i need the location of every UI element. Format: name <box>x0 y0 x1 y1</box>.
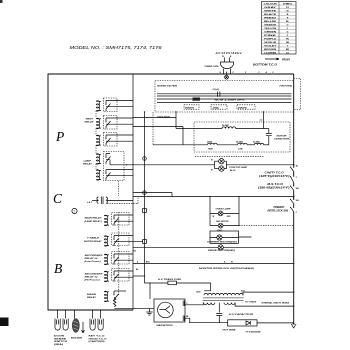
vent motor winding hi <box>176 128 222 130</box>
svg-text:BLUE: BLUE <box>264 21 277 23</box>
svg-text:FRONT: FRONT <box>282 59 291 61</box>
svg-text:BLK: BLK <box>197 291 202 293</box>
functional earth dashed loop <box>294 79 301 110</box>
svg-text:WHITE: WHITE <box>264 10 277 12</box>
drive motor <box>133 246 294 248</box>
dashed link lamp relay to LAT <box>118 181 120 196</box>
svg-text:W: W <box>211 159 213 161</box>
svg-text:(LAMP RELAY): (LAMP RELAY) <box>85 221 102 223</box>
connector square D <box>143 191 147 195</box>
svg-text:PRIMARY: PRIMARY <box>274 207 285 209</box>
fan motor dashed enclosure <box>194 122 290 152</box>
outer enclosure border top+left <box>48 74 294 310</box>
relay 5 <box>96 170 110 181</box>
svg-text:SECONDARY: SECONDARY <box>85 273 104 275</box>
ZNR boxes row <box>184 105 255 109</box>
noise filter line N <box>157 93 292 95</box>
svg-text:INTERNAL GND IN TRANS: INTERNAL GND IN TRANS <box>262 303 290 305</box>
relay 3 <box>96 135 110 146</box>
vent motor winding row 2 <box>153 144 208 146</box>
svg-text:ZNR(270): ZNR(270) <box>184 107 194 109</box>
F labels on top border <box>220 72 275 74</box>
svg-text:B: B <box>54 261 62 276</box>
hv bottom wire <box>190 321 228 323</box>
svg-text:M.S.T.C.O: M.S.T.C.O <box>267 184 283 186</box>
svg-text:28.2(Ω): 28.2(Ω) <box>235 141 243 143</box>
svg-text:HOOD T.C.O: HOOD T.C.O <box>89 338 108 340</box>
svg-text:MOTOR RELAY: MOTOR RELAY <box>84 241 102 243</box>
right bus wire <box>293 74 295 167</box>
svg-text:C: C <box>53 191 63 206</box>
svg-text:VIOLET: VIOLET <box>264 45 277 47</box>
svg-text:MAIN RELAY: MAIN RELAY <box>85 218 103 220</box>
connector square F <box>143 240 147 244</box>
svg-text:L.A.T: L.A.T <box>87 202 93 204</box>
svg-text:(CAUTION): (CAUTION) <box>89 340 106 343</box>
stirrer motor box <box>210 231 239 243</box>
noise filter dashed enclosure <box>155 81 294 113</box>
svg-text:INTER LOCK S/W: INTER LOCK S/W <box>268 211 289 213</box>
page edge mark <box>0 318 9 327</box>
svg-text:220(Ω): 220(Ω) <box>212 107 220 109</box>
left control board box right edge <box>132 74 134 310</box>
noise filter line L <box>157 95 292 97</box>
svg-text:LG: LG <box>286 52 289 54</box>
relay 2 vent <box>96 118 110 129</box>
svg-text:KEY T.C.O: KEY T.C.O <box>89 336 106 338</box>
dashed center vertical <box>152 112 154 145</box>
svg-text:COOKTOP LAMP: COOKTOP LAMP <box>229 167 248 169</box>
svg-text:LAMP: LAMP <box>84 161 92 163</box>
svg-text:RELAY #1: RELAY #1 <box>85 258 98 260</box>
svg-text:YELLOW: YELLOW <box>264 28 277 30</box>
hv capacitor <box>216 303 222 323</box>
svg-text:NOISE FILTER: NOISE FILTER <box>157 85 178 87</box>
svg-text:VENT: VENT <box>86 119 95 121</box>
connector square E <box>143 209 147 213</box>
svg-text:RELAY: RELAY <box>85 122 95 124</box>
svg-text:MONITOR INTERLOCK SW(TOUCHABLE: MONITOR INTERLOCK SW(TOUCHABLE) <box>199 268 254 270</box>
svg-text:MAGNETRON: MAGNETRON <box>157 325 174 327</box>
svg-text:SECONDARY: SECONDARY <box>85 255 104 257</box>
circled 2 <box>72 208 77 213</box>
svg-text:BLACK: BLACK <box>264 13 277 16</box>
svg-text:W: W <box>211 170 213 172</box>
magnetron tube <box>158 302 174 318</box>
svg-text:38.2(Ω): 38.2(Ω) <box>222 125 229 127</box>
svg-text:MAGN: MAGN <box>87 294 97 296</box>
magnetron box <box>154 299 185 322</box>
magnetron ground <box>148 309 150 312</box>
magnetron filament wires <box>185 303 204 305</box>
svg-text:PURPLE: PURPLE <box>264 38 277 40</box>
svg-text:BROWN: BROWN <box>264 49 277 51</box>
svg-text:POWER CORD: POWER CORD <box>205 66 220 68</box>
lamp join wires <box>215 161 294 168</box>
dashed relay frame rail C/B <box>118 212 120 296</box>
svg-text:GY: GY <box>286 7 290 9</box>
front arrow <box>265 58 279 60</box>
svg-text:BR: BR <box>286 49 290 51</box>
svg-text:H.V.CAPACITOR: H.V.CAPACITOR <box>229 314 254 316</box>
svg-text:23.8(Ω): 23.8(Ω) <box>252 141 260 143</box>
cap feed vertical <box>263 112 265 129</box>
svg-text:LT.GREEN: LT.GREEN <box>264 52 276 54</box>
svg-text:AC120V/60Hz: AC120V/60Hz <box>215 51 243 55</box>
svg-text:RELAY: RELAY <box>87 297 97 299</box>
svg-text:(2EA): (2EA) <box>54 343 64 346</box>
buzzer ground arrow <box>82 322 85 333</box>
svg-text:DOOR: DOOR <box>54 336 65 338</box>
inductor block NCM <box>157 98 292 100</box>
svg-text:GREEN: GREEN <box>264 31 277 33</box>
svg-text:W: W <box>213 216 215 218</box>
svg-text:T-TABLE: T-TABLE <box>87 238 100 240</box>
svg-text:MODEL NO. : SMH7175, 7174, 71: MODEL NO. : SMH7175, 7174, 7176 <box>70 45 163 50</box>
buzzer <box>74 310 76 319</box>
connector circle on center bus <box>143 157 147 161</box>
svg-text:SB: SB <box>286 42 289 44</box>
svg-text:P: P <box>55 129 64 144</box>
svg-text:GRAY: GRAY <box>264 6 277 9</box>
cooktop lamp 1 <box>215 160 219 162</box>
wire colour table <box>253 2 296 67</box>
svg-text:DRIVE MOTOR(24V): DRIVE MOTOR(24V) <box>208 249 235 252</box>
svg-text:FAN MOTOR: FAN MOTOR <box>216 221 229 223</box>
svg-text:ZNR(270): ZNR(270) <box>237 107 247 109</box>
relay 4 lamp <box>96 154 110 165</box>
svg-text:18(Ω): 18(Ω) <box>207 141 212 143</box>
svg-text:HOT WIRE: HOT WIRE <box>223 330 237 332</box>
svg-text:ORANGE: ORANGE <box>264 23 277 26</box>
svg-text:BUZZER: BUZZER <box>71 338 83 340</box>
svg-text:BOTTOM T.C.O: BOTTOM T.C.O <box>253 65 277 67</box>
svg-text:G: G <box>287 31 289 33</box>
stirrer motor <box>210 236 252 239</box>
power cord plug <box>205 56 234 79</box>
oven lamp branch verticals <box>210 197 239 226</box>
svg-text:RELAY: RELAY <box>83 164 93 166</box>
cooktop lamp feed wire <box>110 164 215 166</box>
svg-text:H.V.DIODE: H.V.DIODE <box>246 331 262 333</box>
svg-text:SWITCH: SWITCH <box>54 341 68 343</box>
svg-text:PINK: PINK <box>264 35 277 37</box>
svg-text:CAPACITOR: CAPACITOR <box>274 139 290 141</box>
svg-text:HIGH: HIGH <box>208 148 214 150</box>
chassis ground at bus bottom <box>291 324 296 328</box>
hv transformer core <box>203 298 244 300</box>
svg-text:(125°F)(240±16°F): (125°F)(240±16°F) <box>259 175 290 178</box>
fan motor dashed wire to bus <box>239 225 294 227</box>
door switch diagonals on right bus <box>291 167 294 212</box>
vent feed wires from relays <box>133 127 183 145</box>
svg-text:STIRRER MOTOR(24V): STIRRER MOTOR(24V) <box>207 240 237 243</box>
svg-text:MOTOR: MOTOR <box>277 136 288 138</box>
svg-text:W: W <box>231 262 233 264</box>
hv transformer secondary <box>204 303 215 305</box>
vent motor feed vertical <box>175 112 177 129</box>
relay 1 vent fan <box>96 101 110 112</box>
monitor interlock wire <box>133 263 294 265</box>
svg-text:(Hi Power): (Hi Power) <box>85 279 101 281</box>
bleed resistor zigzag <box>113 297 154 309</box>
hv diode box <box>228 320 257 326</box>
svg-text:SYMBOL: SYMBOL <box>283 3 293 5</box>
svg-text:FUNCTIONAL: FUNCTIONAL <box>280 86 294 88</box>
hv transformer filament winding <box>224 303 235 305</box>
svg-text:COLOUR: COLOUR <box>264 3 278 5</box>
svg-text:(Low Power): (Low Power) <box>85 261 101 263</box>
corner mark <box>0 0 3 3</box>
coil link dashes <box>95 111 97 170</box>
svg-text:0.1(uF): 0.1(uF) <box>213 89 220 91</box>
svg-text:H.V. TRANS: H.V. TRANS <box>245 301 257 303</box>
center bus vertical <box>144 112 146 283</box>
magnetron feed vertical <box>149 283 151 299</box>
oven lamp / fan motor feed line <box>133 196 294 198</box>
motor capacitor <box>266 129 272 146</box>
svg-text:W: W <box>222 56 224 58</box>
svg-text:CAVITY T.C.O: CAVITY T.C.O <box>265 173 284 175</box>
svg-text:RELAY #2: RELAY #2 <box>85 276 99 278</box>
door sense connector <box>55 319 68 331</box>
bus junction dots <box>290 164 295 208</box>
svg-text:OVEN LAMP: OVEN LAMP <box>216 208 232 210</box>
svg-text:PU: PU <box>286 38 289 40</box>
cooktop lamp 2 <box>215 168 219 170</box>
magnetron terminal marks <box>183 301 184 322</box>
svg-text:SKYBLUE: SKYBLUE <box>264 42 277 44</box>
dashed stub below fan box <box>195 155 264 157</box>
svg-text:O: O <box>287 24 289 26</box>
svg-text:NCM 1.5mH 10%: NCM 1.5mH 10% <box>215 99 245 101</box>
svg-text:(150-65)(230±14°F): (150-65)(230±14°F) <box>258 187 290 190</box>
svg-text:RED: RED <box>264 17 277 19</box>
key tco connector <box>90 319 103 331</box>
svg-text:SENSE: SENSE <box>54 338 68 340</box>
hv feed wire <box>133 275 145 277</box>
